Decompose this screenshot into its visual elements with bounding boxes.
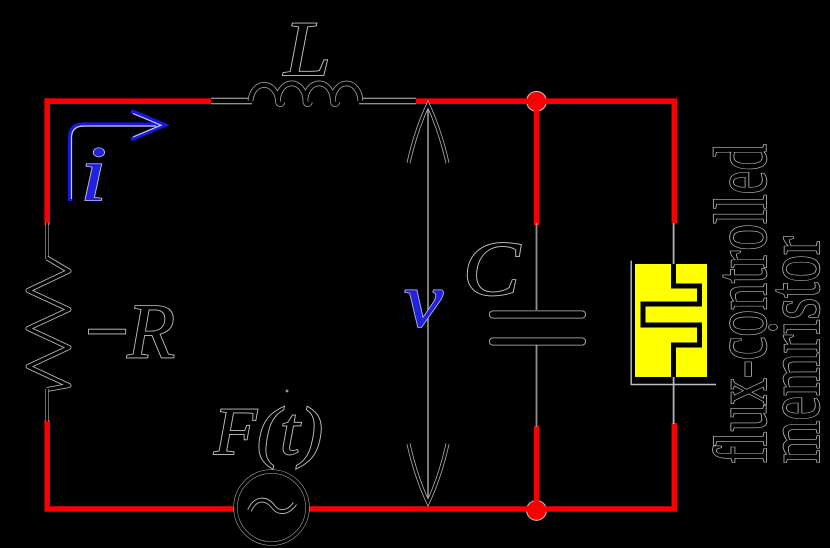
capacitor C (plates): [493, 315, 582, 342]
svg-text:C: C: [463, 225, 521, 312]
current arrow i (blue hook arrow): [70, 111, 165, 201]
wire: memristor upper lead (black): [673, 223, 675, 264]
node A: top junction dot: [527, 91, 547, 111]
wire: top black segment left of inductor: [211, 98, 252, 104]
wire: left black lead below resistor: [45, 389, 48, 422]
wire: top-left red segment: [45, 98, 213, 104]
memristor M1 (yellow body): [635, 264, 707, 377]
wire: capacitor lower lead (black): [536, 345, 538, 427]
svg-text:F(t): F(t): [213, 393, 323, 469]
svg-text:L: L: [283, 5, 331, 92]
wire: bottom red (left of source): [45, 506, 235, 512]
memristor M1 (black meander): [643, 264, 700, 377]
stray mark above F(t): [286, 390, 289, 393]
wire: capacitor branch red (bottom): [534, 426, 539, 506]
node B: bottom junction dot: [527, 501, 547, 521]
svg-text:i: i: [80, 130, 107, 217]
wire: memristor lower lead (black): [673, 377, 675, 424]
wire: left black lead above resistor: [45, 223, 48, 260]
wire: left vertical red (bottom): [44, 420, 50, 512]
svg-text:v: v: [404, 256, 443, 343]
svg-text:memristor: memristor: [753, 236, 830, 463]
wire: capacitor branch red (top): [534, 101, 539, 225]
wire: right vertical red (bottom): [672, 423, 678, 512]
wire: right vertical red (top): [672, 100, 678, 223]
wire: top-right red segment: [414, 101, 677, 104]
memristor M1 (outline highlight): [631, 261, 716, 385]
wire: capacitor upper lead (black): [536, 223, 538, 310]
resistor -R (zigzag): [28, 258, 69, 390]
wire: left vertical red (top): [44, 98, 50, 225]
wire: top black segment right of inductor: [359, 98, 416, 104]
svg-text:−R: −R: [80, 288, 175, 375]
source F(t) (sine source circle): [236, 472, 308, 544]
inductor L (coil): [251, 83, 361, 104]
voltage arrow v (double-headed vertical): [409, 105, 448, 503]
wire: bottom red (right of source): [310, 506, 678, 509]
